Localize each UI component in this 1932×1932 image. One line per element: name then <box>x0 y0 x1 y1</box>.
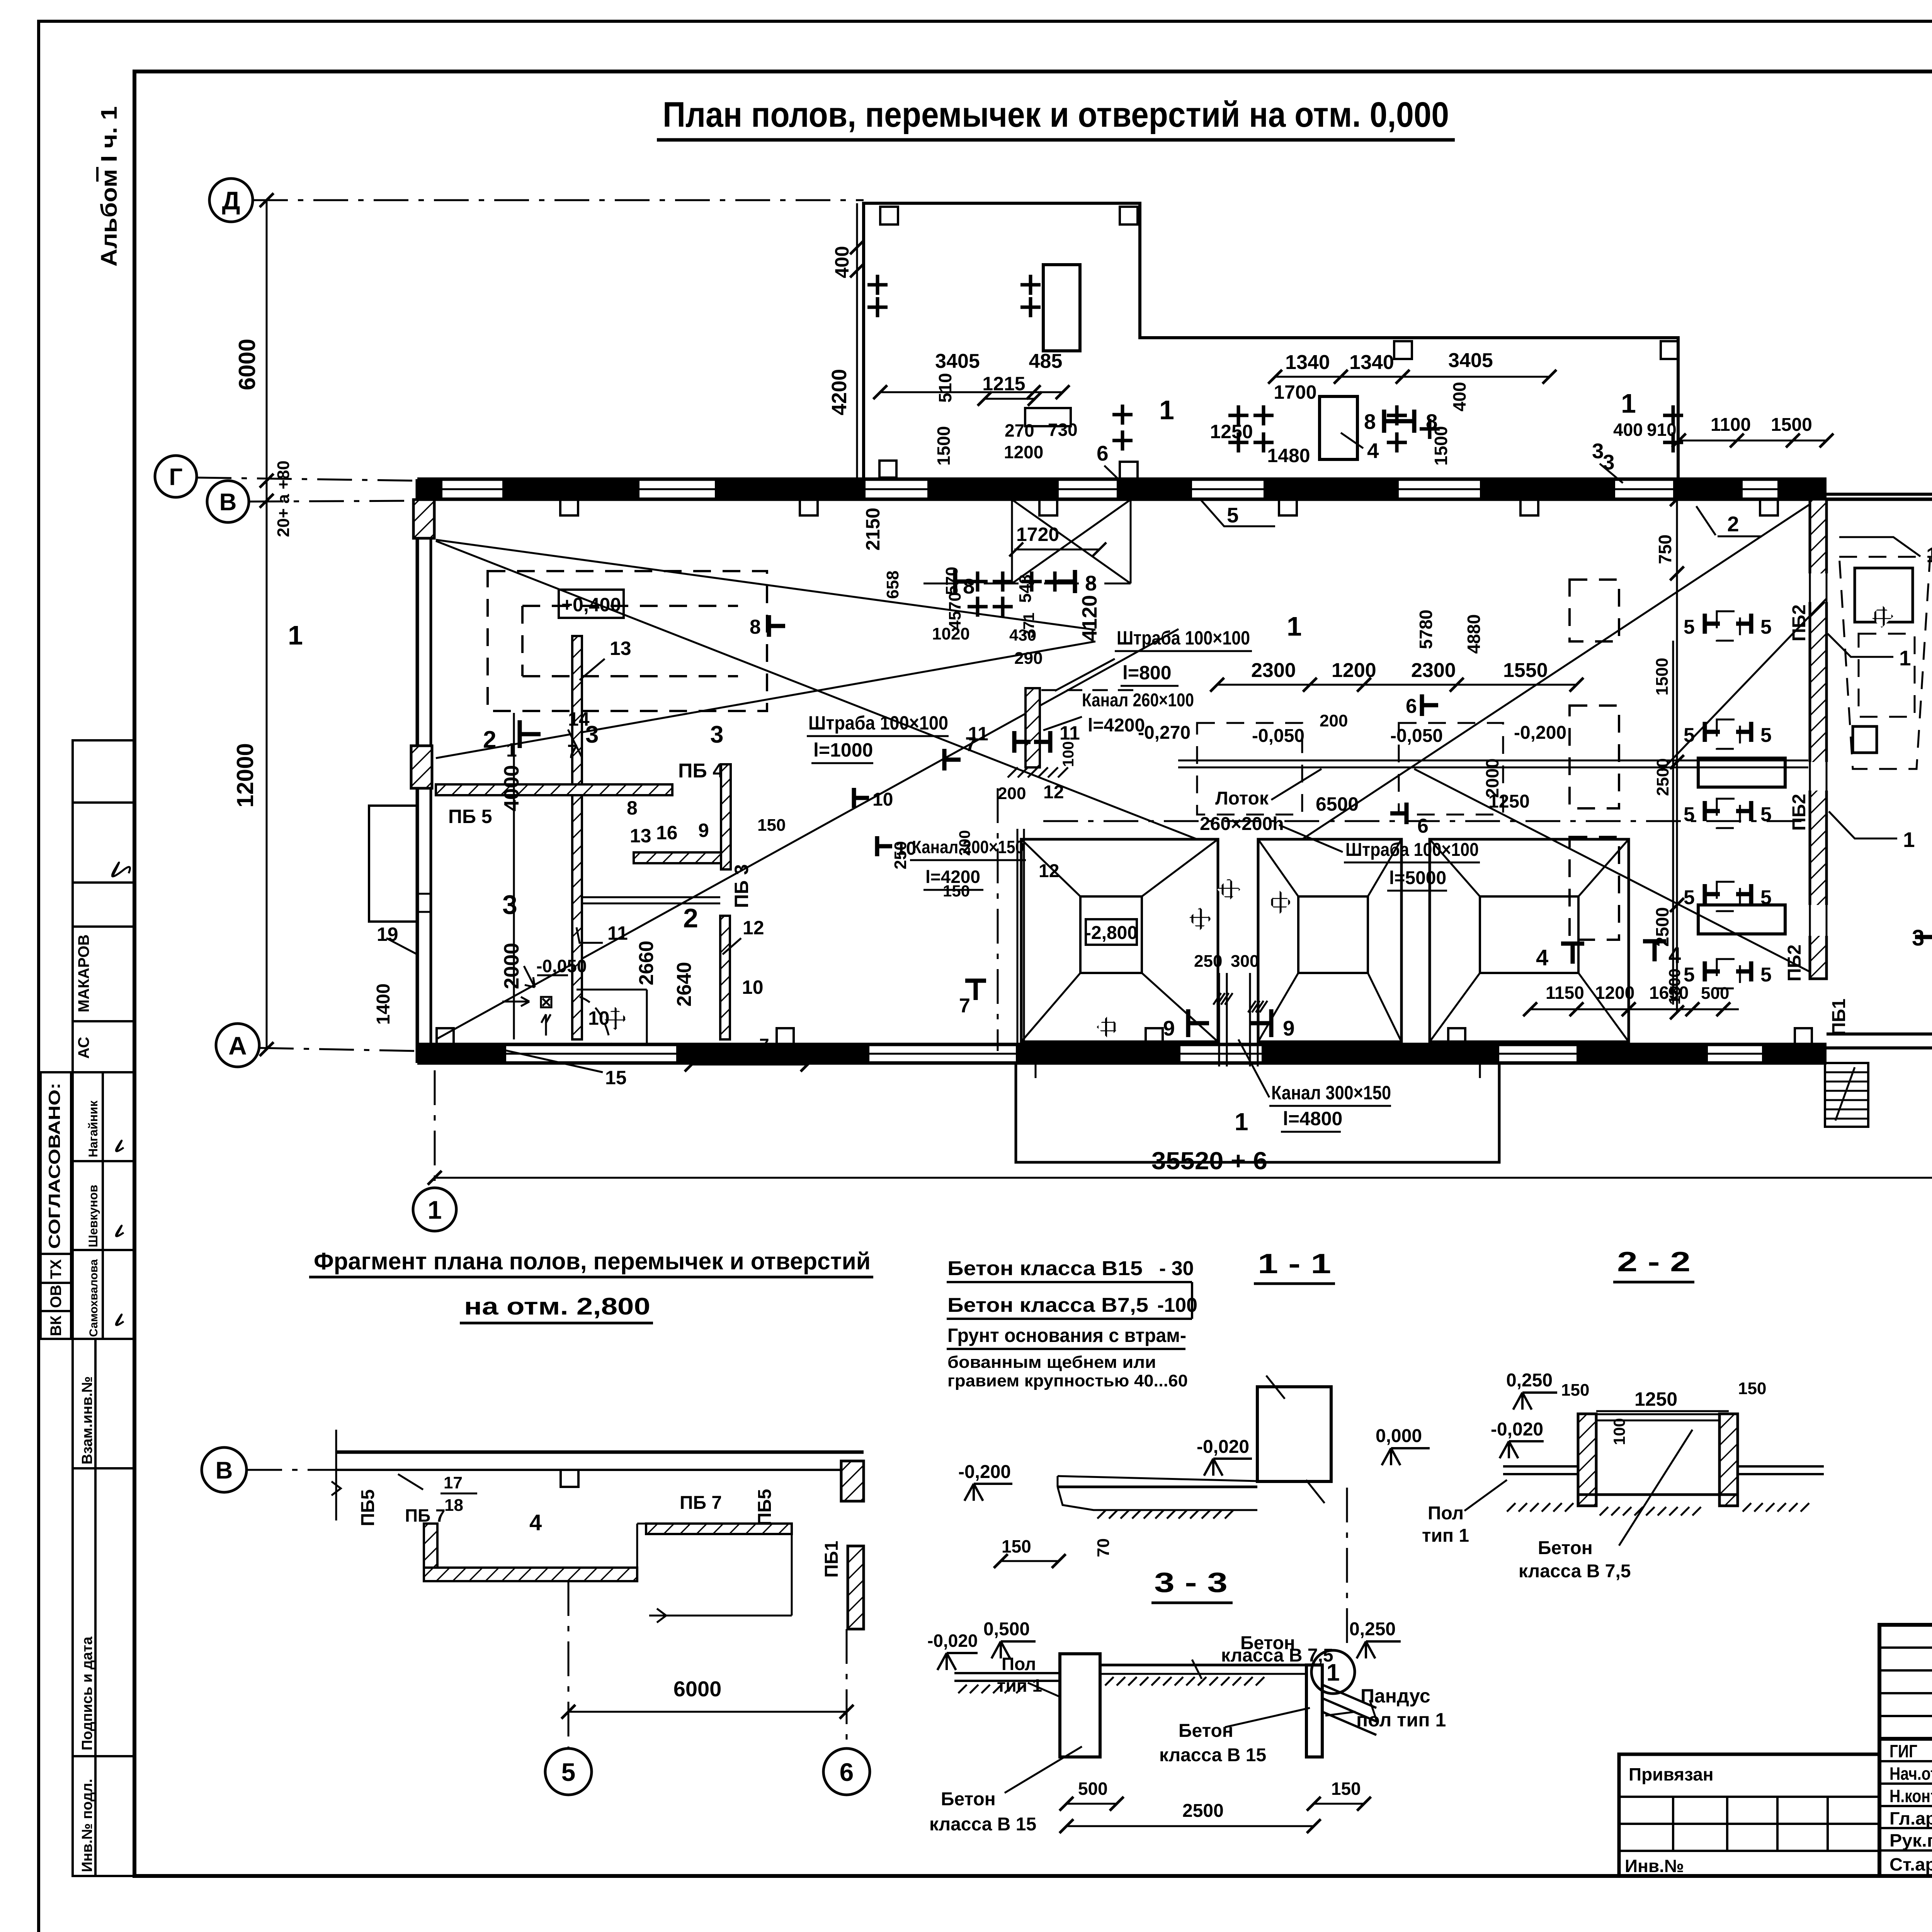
svg-text:- 30: - 30 <box>1159 1257 1194 1280</box>
annex small rect <box>1025 408 1071 426</box>
lotok dashed pits <box>1197 723 1302 815</box>
svg-text:2: 2 <box>1727 512 1739 536</box>
svg-text:-0,050: -0,050 <box>1390 726 1443 746</box>
svg-text:2000: 2000 <box>500 943 523 989</box>
svg-text:8: 8 <box>1364 410 1376 434</box>
axis circle Г <box>155 456 197 497</box>
vertical channel lines below kanal260 <box>1017 829 1019 1043</box>
svg-text:4000: 4000 <box>500 765 523 811</box>
svg-text:5: 5 <box>1760 616 1772 638</box>
top annex outline <box>864 203 1678 479</box>
svg-text:Канал 200×150: Канал 200×150 <box>912 837 1024 857</box>
svg-text:Бетон класса В7,5: Бетон класса В7,5 <box>947 1294 1148 1316</box>
svg-text:1: 1 <box>1903 828 1915 852</box>
svg-text:ПБ1: ПБ1 <box>821 1541 842 1578</box>
dashed duct 5Т/Т5 <box>1717 719 1740 749</box>
mark T7 <box>965 979 986 983</box>
svg-text:1250: 1250 <box>1210 421 1253 442</box>
svg-text:150: 150 <box>757 816 786 835</box>
svg-text:СОГЛАСОВАНО:: СОГЛАСОВАНО: <box>45 1083 63 1249</box>
svg-text:270: 270 <box>1005 420 1034 440</box>
svg-text:тип 1: тип 1 <box>1422 1526 1469 1546</box>
fragment top wall <box>336 1451 864 1454</box>
svg-text:В: В <box>219 489 237 515</box>
svg-text:Пандус: Пандус <box>1361 1685 1430 1707</box>
svg-text:0,500: 0,500 <box>983 1619 1030 1639</box>
svg-text:5: 5 <box>1684 616 1695 638</box>
svg-text:2300: 2300 <box>1251 659 1296 682</box>
svg-text:бованным щебнем или: бованным щебнем или <box>947 1353 1156 1372</box>
platform right of wall W1 <box>577 989 647 991</box>
svg-text:2300: 2300 <box>1411 659 1456 682</box>
svg-text:-0,200: -0,200 <box>1514 723 1566 743</box>
pit 3 <box>1430 839 1629 1042</box>
svg-text:на отм. 2,800: на отм. 2,800 <box>464 1293 650 1320</box>
level box -2,800 <box>1086 919 1137 945</box>
centerline <box>1043 820 1808 822</box>
svg-text:9: 9 <box>1163 1016 1175 1040</box>
partition wall ПБ4 <box>436 784 672 795</box>
svg-text:пол тип 1: пол тип 1 <box>1356 1709 1446 1731</box>
svg-text:8: 8 <box>750 616 761 638</box>
svg-text:ПБ 3: ПБ 3 <box>731 864 752 908</box>
upper equipment rect <box>1320 396 1357 459</box>
svg-text:0,250: 0,250 <box>1349 1619 1396 1639</box>
axis circle 5 <box>545 1748 592 1795</box>
svg-text:2: 2 <box>683 903 698 933</box>
svg-text:1200: 1200 <box>1595 983 1634 1003</box>
svg-text:6: 6 <box>1417 815 1429 837</box>
axis В line <box>249 501 417 502</box>
svg-text:Самохвалова: Самохвалова <box>87 1259 100 1337</box>
svg-text:ПБ 7: ПБ 7 <box>680 1493 722 1513</box>
svg-text:Рук.гр.: Рук.гр. <box>1889 1830 1932 1850</box>
svg-text:5: 5 <box>1227 503 1239 527</box>
svg-text:гравием крупностью 40...60: гравием крупностью 40...60 <box>947 1371 1188 1390</box>
svg-text:3405: 3405 <box>935 350 980 372</box>
svg-text:400: 400 <box>831 246 853 278</box>
svg-text:1: 1 <box>506 739 517 761</box>
svg-text:МАКАРОВ: МАКАРОВ <box>75 934 92 1012</box>
axis Д line <box>253 199 864 201</box>
svg-text:l=4800: l=4800 <box>1283 1108 1342 1129</box>
svg-text:3405: 3405 <box>1448 349 1493 372</box>
svg-text:Г: Г <box>169 464 182 490</box>
annex column <box>880 207 898 224</box>
svg-text:150: 150 <box>1738 1379 1766 1398</box>
annex column <box>879 461 896 478</box>
svg-text:9: 9 <box>698 820 709 841</box>
svg-text:ВК: ВК <box>48 1315 65 1336</box>
svg-text:Фрагмент плана полов, перемыче: Фрагмент плана полов, перемычек и отверс… <box>314 1248 871 1275</box>
dashed feeder machine <box>1839 557 1930 769</box>
svg-text:4: 4 <box>1536 945 1548 970</box>
axis circle 6 <box>823 1748 870 1795</box>
svg-text:1: 1 <box>1287 611 1302 641</box>
fragment right hatched wall <box>848 1546 864 1629</box>
svg-text:1150: 1150 <box>1546 983 1584 1003</box>
svg-text:10: 10 <box>872 789 893 810</box>
svg-text:Пол: Пол <box>1002 1654 1036 1674</box>
svg-text:ПБ1: ПБ1 <box>1829 998 1849 1036</box>
dashed duct 5Т/Т5 <box>1717 882 1740 911</box>
svg-text:ПБ 7: ПБ 7 <box>405 1505 446 1526</box>
svg-text:Штраба 100×100: Штраба 100×100 <box>808 712 948 734</box>
svg-text:1900: 1900 <box>713 1041 754 1061</box>
svg-text:250: 250 <box>1194 952 1222 971</box>
svg-text:Альбом I ч. 1: Альбом I ч. 1 <box>97 106 122 267</box>
svg-text:12: 12 <box>1043 782 1064 803</box>
svg-text:1550: 1550 <box>1503 659 1548 682</box>
svg-text:18: 18 <box>444 1496 463 1515</box>
svg-text:7: 7 <box>759 1035 769 1055</box>
svg-text:В: В <box>216 1457 233 1484</box>
svg-text:Нагайник: Нагайник <box>86 1100 100 1157</box>
svg-text:1700: 1700 <box>1274 381 1316 403</box>
svg-text:4880: 4880 <box>1464 614 1484 654</box>
svg-text:-0,020: -0,020 <box>1197 1437 1249 1457</box>
lotok 260x200h channel <box>1178 760 1808 762</box>
svg-text:6000: 6000 <box>673 1677 722 1701</box>
svg-text:5: 5 <box>1684 886 1695 909</box>
svg-text:200: 200 <box>1320 711 1348 730</box>
svg-text:8: 8 <box>627 797 638 819</box>
svg-text:1: 1 <box>1926 543 1932 567</box>
svg-text:500: 500 <box>1078 1779 1108 1799</box>
svg-text:Привязан: Привязан <box>1629 1764 1714 1784</box>
svg-text:ПБ5: ПБ5 <box>358 1489 378 1526</box>
svg-text:Взам.инв.№: Взам.инв.№ <box>79 1376 95 1464</box>
svg-text:1: 1 <box>1159 395 1174 425</box>
svg-text:1500: 1500 <box>1653 658 1672 696</box>
svg-text:4200: 4200 <box>828 369 851 415</box>
svg-text:4570: 4570 <box>946 592 964 630</box>
svg-text:6: 6 <box>1406 695 1417 718</box>
svg-text:Штраба 100×100: Штраба 100×100 <box>1117 627 1250 649</box>
left porch <box>369 806 417 922</box>
svg-text:Нач.отд.: Нач.отд. <box>1889 1764 1932 1784</box>
svg-text:9: 9 <box>1283 1016 1295 1040</box>
thin partition horizontal <box>582 896 720 898</box>
svg-text:Штраба 100×100: Штраба 100×100 <box>1345 840 1479 860</box>
svg-text:ГИГ: ГИГ <box>1889 1741 1917 1761</box>
svg-text:1: 1 <box>1899 646 1911 670</box>
long diagonals <box>436 541 1197 839</box>
svg-text:12: 12 <box>743 917 764 939</box>
svg-text:510: 510 <box>935 373 955 403</box>
svg-text:Канал 260×100: Канал 260×100 <box>1082 690 1194 711</box>
svg-text:20+ a +80: 20+ a +80 <box>274 461 293 537</box>
right annex walls <box>1827 493 1932 496</box>
3-3 ramp <box>1322 1685 1376 1708</box>
svg-text:250: 250 <box>891 841 910 869</box>
svg-text:400: 400 <box>1613 420 1643 440</box>
dash-dot axis near channel <box>997 788 999 1051</box>
svg-text:260×200h: 260×200h <box>1200 814 1284 834</box>
svg-text:750: 750 <box>1655 534 1675 564</box>
axis circle 1 <box>413 1188 456 1231</box>
svg-text:2 - 2: 2 - 2 <box>1617 1247 1690 1277</box>
left vertical dimension line <box>266 200 268 1049</box>
left outer wall <box>416 479 419 1063</box>
svg-text:Бетон класса В15: Бетон класса В15 <box>947 1257 1143 1280</box>
svg-text:6000: 6000 <box>234 339 260 390</box>
svg-text:класса В 15: класса В 15 <box>1159 1745 1266 1765</box>
svg-text:1100: 1100 <box>1711 415 1751 435</box>
axis 1 line <box>434 1070 436 1185</box>
svg-text:1720: 1720 <box>1016 524 1059 545</box>
svg-text:Грунт основания с втрам-: Грунт основания с втрам- <box>947 1325 1186 1346</box>
svg-text:3: 3 <box>1912 925 1924 951</box>
svg-text:5: 5 <box>561 1758 576 1786</box>
fragment wall column <box>561 1470 578 1487</box>
kanal 260x100 hatched band <box>1026 688 1040 767</box>
svg-text:l=5000: l=5000 <box>1389 868 1446 888</box>
axis Г line <box>197 478 417 481</box>
dashed platform +0,400 <box>488 571 767 711</box>
annex column <box>1394 341 1412 359</box>
svg-text:-0,050: -0,050 <box>536 956 587 976</box>
svg-text:70: 70 <box>1094 1538 1113 1557</box>
signatures squiggles in stamp <box>112 862 130 877</box>
svg-text:7: 7 <box>965 733 976 756</box>
hatched column left middle <box>411 746 432 788</box>
axis А line <box>259 1048 417 1051</box>
svg-text:Пол: Пол <box>1428 1503 1464 1524</box>
svg-text:14: 14 <box>568 708 590 730</box>
svg-text:910: 910 <box>1647 420 1677 440</box>
svg-text:1480: 1480 <box>1267 445 1310 466</box>
svg-text:0,250: 0,250 <box>1506 1370 1553 1391</box>
svg-text:Бетон: Бетон <box>941 1789 996 1810</box>
vertical dim line right section <box>1672 641 1674 1005</box>
svg-text:1 - 1: 1 - 1 <box>1258 1248 1331 1279</box>
svg-text:Ст.арх.: Ст.арх. <box>1889 1854 1932 1874</box>
vertical dim chain right section <box>1676 499 1678 1012</box>
leader kanal 260x100 <box>1043 717 1082 730</box>
svg-text:ОВ: ОВ <box>48 1285 65 1308</box>
svg-text:Подпись и дата: Подпись и дата <box>79 1636 95 1750</box>
svg-text:500: 500 <box>1701 984 1729 1003</box>
svg-text:6500: 6500 <box>1316 793 1359 815</box>
stairs <box>1825 1063 1868 1127</box>
axis circle Д <box>209 179 253 222</box>
svg-text:1500: 1500 <box>1771 415 1812 435</box>
svg-text:ПБ5: ПБ5 <box>755 1489 775 1526</box>
svg-text:Д: Д <box>222 186 240 215</box>
crosshatch marks <box>1188 907 1211 930</box>
svg-text:-0,020: -0,020 <box>1491 1419 1543 1440</box>
dashed vent shafts column <box>1570 580 1619 641</box>
svg-text:100: 100 <box>1060 741 1077 767</box>
svg-text:8: 8 <box>963 574 975 598</box>
X-crossed opening box 1720 <box>923 500 1131 583</box>
equipment table 1 <box>1698 758 1785 787</box>
svg-text:l=4200: l=4200 <box>1088 715 1145 736</box>
svg-text:3 - 3: 3 - 3 <box>1154 1567 1228 1598</box>
floor drain <box>541 997 551 1007</box>
svg-text:4120: 4120 <box>1078 595 1101 641</box>
svg-text:11: 11 <box>1060 722 1080 744</box>
svg-text:2660: 2660 <box>635 940 658 985</box>
svg-text:класса В 15: класса В 15 <box>929 1814 1036 1835</box>
svg-text:7: 7 <box>959 995 970 1017</box>
svg-text:3: 3 <box>710 721 723 748</box>
svg-text:1215: 1215 <box>982 373 1025 395</box>
svg-text:485: 485 <box>1029 350 1063 372</box>
partition wall W1 vertical <box>572 636 582 784</box>
3-3 middle slab <box>1100 1664 1306 1667</box>
fragment axis circle В <box>202 1447 247 1492</box>
building bottom wall band <box>417 1043 1827 1046</box>
svg-text:l=4200: l=4200 <box>925 867 980 887</box>
svg-text:16: 16 <box>656 822 678 844</box>
fragment dim 6000 <box>568 1581 570 1748</box>
svg-text:1340: 1340 <box>1285 351 1330 374</box>
svg-text:12: 12 <box>1039 861 1059 881</box>
svg-text:Лоток: Лоток <box>1215 788 1269 809</box>
svg-text:Гл.арх.: Гл.арх. <box>1889 1808 1932 1828</box>
svg-text:2150: 2150 <box>862 508 884 551</box>
section axis circle 1 <box>1311 1650 1355 1694</box>
axis circle В <box>207 481 249 522</box>
svg-text:класса В 7,5: класса В 7,5 <box>1519 1561 1631 1582</box>
svg-text:Н.контр.: Н.контр. <box>1889 1786 1932 1806</box>
svg-text:План полов, перемычек и отверс: План полов, перемычек и отверстий на отм… <box>663 95 1449 134</box>
svg-text:1200: 1200 <box>1004 442 1043 462</box>
svg-text:10: 10 <box>742 976 764 998</box>
svg-text:Бетон: Бетон <box>1179 1721 1233 1741</box>
svg-text:Инв.№: Инв.№ <box>1625 1856 1684 1876</box>
level box +0,400 <box>559 590 624 618</box>
svg-text:150: 150 <box>1331 1779 1361 1799</box>
svg-text:371: 371 <box>1020 612 1037 638</box>
dashed duct 5Т/Т5 <box>1717 959 1740 988</box>
svg-text:2500: 2500 <box>1182 1801 1224 1821</box>
2-2 channel <box>1578 1414 1596 1506</box>
svg-text:ПБ 4: ПБ 4 <box>678 760 724 782</box>
left stamp column <box>41 740 134 1876</box>
extra cross annex <box>1112 439 1133 442</box>
axis circle А <box>216 1024 259 1067</box>
title block (штамп) <box>1619 1625 1932 1876</box>
dashed duct 5Т/Т5 <box>1717 611 1740 641</box>
svg-text:+0,400: +0,400 <box>561 594 621 616</box>
svg-text:13: 13 <box>630 825 651 847</box>
svg-text:-0,050: -0,050 <box>1252 726 1304 746</box>
svg-text:5: 5 <box>1684 724 1695 747</box>
svg-text:Бетон: Бетон <box>1538 1538 1593 1558</box>
svg-text:А: А <box>228 1031 247 1060</box>
fragment C-channel <box>424 1524 437 1581</box>
svg-text:5: 5 <box>1760 803 1772 826</box>
svg-text:200: 200 <box>998 784 1026 803</box>
svg-text:2640: 2640 <box>673 962 696 1007</box>
svg-text:1: 1 <box>1235 1108 1248 1136</box>
svg-text:ПБ2: ПБ2 <box>1789 794 1810 831</box>
svg-text:1: 1 <box>1621 388 1636 418</box>
svg-text:3: 3 <box>502 889 517 920</box>
1-1 wall <box>1257 1387 1331 1481</box>
1-1 floor slab <box>1058 1486 1257 1488</box>
building top wall band <box>417 478 1827 481</box>
svg-text:5780: 5780 <box>1416 610 1436 649</box>
annex column <box>1661 341 1679 359</box>
svg-text:-0,270: -0,270 <box>1138 723 1190 743</box>
svg-text:2500: 2500 <box>1653 758 1672 796</box>
svg-text:-2,800: -2,800 <box>1085 923 1138 943</box>
svg-text:3: 3 <box>1592 439 1604 463</box>
svg-text:400: 400 <box>1449 382 1469 412</box>
svg-text:2: 2 <box>483 726 496 753</box>
svg-text:6: 6 <box>840 1758 854 1786</box>
svg-text:1400: 1400 <box>373 983 394 1025</box>
svg-text:15: 15 <box>605 1067 627 1088</box>
3-3 right wall <box>1306 1665 1322 1757</box>
annex equipment rect <box>1043 265 1080 351</box>
kanal 300x150 vertical <box>1218 973 1220 1066</box>
fragment hatched column right <box>841 1461 864 1501</box>
hatched column left top <box>413 500 434 538</box>
bottom dock protrusion <box>1016 1063 1499 1162</box>
partition wall W2 vertical <box>721 764 731 869</box>
3-3 left wall <box>1060 1654 1100 1757</box>
dashed duct 5Т/Т5 <box>1717 799 1740 828</box>
svg-text:4: 4 <box>1367 439 1379 463</box>
svg-text:8: 8 <box>1426 410 1438 434</box>
svg-text:11: 11 <box>607 922 628 944</box>
svg-text:4: 4 <box>529 1510 542 1535</box>
svg-text:150: 150 <box>1561 1381 1589 1400</box>
svg-text:l=800: l=800 <box>1122 662 1172 684</box>
annex dim ticks row <box>873 385 887 399</box>
svg-text:13: 13 <box>610 638 631 659</box>
equipment table 2 <box>1698 905 1785 934</box>
svg-text:1650: 1650 <box>1649 983 1689 1003</box>
svg-text:4: 4 <box>1668 943 1681 968</box>
svg-text:0,000: 0,000 <box>1376 1426 1422 1446</box>
top wall pilasters <box>560 499 578 515</box>
svg-text:6: 6 <box>1097 441 1109 465</box>
svg-text:1: 1 <box>428 1196 442 1224</box>
svg-text:1: 1 <box>288 620 303 650</box>
svg-text:Шевкунов: Шевкунов <box>86 1185 100 1247</box>
svg-text:5: 5 <box>1760 724 1772 747</box>
svg-text:12000: 12000 <box>232 743 258 808</box>
annex column <box>1120 207 1138 224</box>
svg-text:100: 100 <box>1610 1418 1628 1445</box>
svg-text:1340: 1340 <box>1349 351 1394 374</box>
pit 2 <box>1258 839 1401 1042</box>
small square marker <box>634 852 721 863</box>
svg-text:Канал 300×150: Канал 300×150 <box>1271 1082 1391 1104</box>
svg-text:1250: 1250 <box>1634 1388 1677 1410</box>
pit 1 (-2,800) <box>1021 839 1218 1042</box>
svg-text:35520 + 6: 35520 + 6 <box>1151 1147 1267 1175</box>
svg-text:ПБ 5: ПБ 5 <box>448 806 492 827</box>
svg-text:5: 5 <box>1684 803 1695 826</box>
1-1 step <box>1058 1487 1257 1510</box>
svg-text:l=1000: l=1000 <box>813 739 873 761</box>
overall dimension 35520+6 <box>435 1177 1932 1179</box>
svg-text:-0,200: -0,200 <box>958 1462 1011 1482</box>
svg-text:150: 150 <box>1002 1536 1031 1556</box>
bottom wall pilasters <box>437 1028 454 1044</box>
svg-text:-0,020: -0,020 <box>927 1631 978 1651</box>
svg-text:5: 5 <box>1760 964 1772 986</box>
svg-text:300: 300 <box>1231 952 1259 971</box>
svg-text:класса В 7,5: класса В 7,5 <box>1221 1645 1333 1666</box>
